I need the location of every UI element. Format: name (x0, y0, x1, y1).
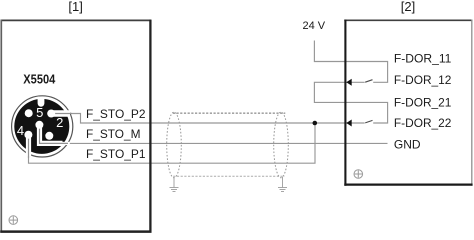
shield dashed tube top (173, 112, 285, 114)
svg-text:[2]: [2] (401, 0, 415, 14)
ground right (shield) (278, 177, 287, 192)
wire stub center pin over channel (40, 128, 69, 143)
pin top-left (25, 109, 33, 117)
pin channel pin4 (26, 135, 31, 156)
arrow F-DOR_22 output (346, 120, 351, 127)
pin 4 (24, 131, 32, 139)
svg-text:GND: GND (394, 138, 421, 152)
svg-text:F_STO_P1: F_STO_P1 (86, 147, 146, 161)
wire F_STO_P2 from pin2 to F-DOR_22 switch (51, 114, 365, 124)
pin bottom-right (45, 132, 53, 140)
box [1] left edge (0, 20, 2, 232)
svg-text:F_STO_M: F_STO_M (86, 127, 141, 141)
box [2] right edge (471, 20, 473, 186)
switch blade S1 (F-DOR_11/12) (365, 80, 372, 83)
pin channel gap at outer ring (63, 142, 70, 145)
junction dot node (313, 121, 318, 126)
arrow F-DOR_12 output (346, 79, 351, 86)
wire F-DOR_12 chain to F-DOR_21 (314, 82, 387, 123)
svg-text:F-DOR_11: F-DOR_11 (394, 51, 452, 65)
connector X5504 body disc (14, 99, 69, 154)
connector keyway notch (38, 97, 45, 107)
chassis ground symbol box1 (9, 216, 18, 225)
shield dashed tube bottom (173, 175, 284, 177)
svg-text:F-DOR_21: F-DOR_21 (394, 96, 452, 110)
pin 2 (47, 110, 55, 118)
wire 24V feed to F-DOR_11 (314, 41, 387, 83)
box [2] thick bottom edge (344, 184, 472, 186)
wire F_STO_M from center pin to GND (40, 125, 388, 144)
svg-text:5: 5 (36, 105, 43, 120)
box [1] thick right edge (149, 20, 151, 233)
wire stub pin2 over channel (51, 113, 72, 115)
wire F_STO_P1 from pin4 to junction column (29, 123, 316, 163)
svg-text:2: 2 (56, 115, 63, 130)
box [1] top edge (1, 19, 152, 21)
svg-text:F-DOR_12: F-DOR_12 (394, 73, 452, 87)
svg-text:[1]: [1] (68, 0, 82, 14)
wire stub pin4 over channel (28, 139, 30, 159)
box [2] top edge (344, 19, 472, 21)
svg-text:F_STO_P2: F_STO_P2 (86, 107, 146, 121)
svg-text:4: 4 (17, 123, 24, 138)
switch blade S2 (F-DOR_21/22) (365, 120, 372, 123)
svg-text:24 V: 24 V (303, 20, 326, 32)
pin channel center pin (40, 125, 63, 144)
box [2] thick left edge (344, 20, 346, 186)
pin 5 center (35, 121, 43, 129)
svg-text:X5504: X5504 (23, 72, 56, 87)
pin channel pin2 (51, 110, 70, 117)
shield left ellipse (167, 112, 182, 178)
svg-text:F-DOR_22: F-DOR_22 (394, 116, 452, 130)
connector X5504 outer circle (12, 96, 73, 157)
box [1] thick bottom edge (0, 230, 151, 233)
shield right ellipse (274, 112, 289, 178)
ground left (shield) (170, 177, 179, 192)
chassis ground symbol box2 (354, 170, 363, 179)
